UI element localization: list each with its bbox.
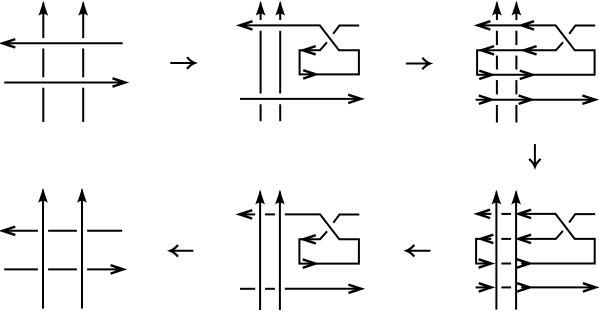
panel 1: top horizontal strand (leftward, over) (3, 42, 123, 44)
panel 4: bottom horizontal strand segment 1 (4, 268, 38, 270)
panel 1: right arrowhead of bottom horizontal strand (113, 78, 126, 86)
panel 6: left arrowhead of looped strand end (477, 210, 490, 218)
panel 1: vertical strand 1 lower segment (42, 88, 44, 122)
panel 1: vertical strand 1 upper segment (42, 3, 44, 38)
panel 3: vertical strand 2 segment 1 (515, 3, 517, 21)
panel 5: looped strand (top line, over diagonal, rectangle loop, under diagonal lower part) (285, 214, 359, 263)
panel 3: left arrowhead 2 on loop top edge (524, 46, 537, 54)
panel 6: looped strand top line segment 2 (501, 213, 511, 215)
panel 3: vertical strand 2 segment 5 (515, 105, 517, 123)
panel 6: right arrowhead 1 on loop bottom edge (479, 259, 492, 267)
panel 3: mid left arrowhead on looped strand top line (521, 21, 534, 29)
panel 6: up arrowhead on vertical strand 1 (492, 190, 502, 205)
panel 3: vertical strand 1 segment 5 (496, 105, 498, 123)
panel 1: up arrowhead on vertical strand 1 (38, 1, 48, 16)
panel 6: up arrowhead on vertical strand 2 (511, 190, 521, 205)
panel 1: up arrowhead on vertical strand 2 (78, 1, 88, 16)
panel 3: right arrowhead 2 on loop bottom edge (520, 71, 533, 79)
panel 2: left arrowhead of looped strand (240, 21, 253, 29)
panel 3: end right arrowhead of bottom horizontal strand (582, 96, 595, 104)
panel 3: up arrowhead on vertical strand 2 (512, 1, 522, 16)
panel 4: top horizontal strand segment 2 (48, 230, 77, 232)
panel 5: left arrowhead on loop top edge (303, 235, 316, 243)
panel 2: up arrowhead on vertical strand 2 (275, 1, 285, 16)
panel 3: vertical strand 2 segment 4 (515, 80, 517, 94)
panel 5: right arrowhead on loop bottom edge (303, 259, 316, 267)
panel 2: vertical strand 1 upper segment (260, 3, 262, 20)
panel 3: bottom horizontal strand (rightward, over) (476, 99, 594, 101)
panel 4: top horizontal strand segment 1 (3, 230, 38, 232)
panel 6: loop top edge middle segment (501, 238, 511, 240)
panel 5: bottom horizontal strand segment 1 (240, 288, 255, 290)
panel 1: left arrowhead of top horizontal strand (3, 39, 16, 47)
panel 3: vertical strand 2 segment 3 (515, 56, 517, 70)
panel 2: vertical strand 2 middle segment (279, 31, 281, 94)
panel 6: loop left end (bottom edge, left edge, top edge) (476, 239, 491, 264)
panel 4: up arrowhead on vertical strand 2 (77, 188, 87, 203)
panel 2: right arrowhead on loop bottom edge (303, 70, 316, 78)
panel 5: left arrowhead of looped strand (239, 210, 252, 218)
panel 6: bottom horizontal strand segment 1 (476, 286, 492, 288)
panel 6: mid left arrowhead on looped strand top line (518, 210, 531, 218)
panel 6: looped strand (top line, over diagonal, loop right part) (521, 214, 595, 264)
panel 3: looped strand (top line, over diagonal, stretched rectangle loop, under diagonal lower part) (477, 25, 594, 74)
panel 6: looped strand under-diagonal upper part and right stub (569, 214, 595, 222)
panel 5: looped strand top line segment 1 (240, 213, 255, 215)
panel 2: up arrowhead on vertical strand 1 (256, 1, 266, 16)
panel 3: up arrowhead on vertical strand 1 (492, 1, 502, 16)
panel 2: vertical strand 2 upper segment (279, 3, 281, 20)
panel 4: vertical strand 1 (solid, over) (42, 190, 44, 309)
panel 5: up arrowhead on vertical strand 1 (255, 190, 265, 205)
panel 2: vertical strand 1 middle segment (260, 31, 262, 94)
panel 6: vertical strand 1 (solid, over) (495, 192, 497, 310)
panel 6: right arrowhead 2 on loop bottom edge (517, 259, 530, 267)
panel 3: vertical strand 2 segment 2 (515, 31, 517, 45)
panel 6: bottom horizontal strand segment 2 (501, 286, 511, 288)
panel 3: vertical strand 1 segment 4 (496, 80, 498, 94)
panel 5: bottom horizontal strand segment 3 (285, 288, 359, 290)
panel 5: vertical strand 1 (solid, over) (259, 192, 261, 311)
panel 6: left arrowhead 2 on loop top edge (518, 235, 531, 243)
panel 3: vertical strand 1 segment 1 (496, 3, 498, 21)
panel 3: right arrowhead 2 on bottom horizontal strand (519, 96, 532, 104)
panel 3: right arrowhead 1 on loop bottom edge (479, 71, 492, 79)
move arrow: panel 6 to panel 5 (407, 245, 431, 257)
panel 3: vertical strand 1 segment 3 (496, 56, 498, 70)
panel 6: bottom horizontal strand segment 3 (521, 286, 594, 288)
panel 1: vertical strand 2 middle segment (82, 49, 84, 78)
panel 6: loop bottom edge middle segment (501, 263, 511, 265)
panel 6: looped strand top line segment 1 (478, 213, 491, 215)
panel 1: vertical strand 2 upper segment (82, 3, 84, 38)
panel 2: bottom horizontal strand (rightward, over) (240, 98, 359, 100)
panel 4: vertical strand 2 (solid, over) (81, 190, 83, 309)
panel 4: bottom horizontal strand segment 2 (48, 268, 77, 270)
move arrow: panel 2 to panel 3 (406, 58, 430, 70)
panel 5: looped strand under-diagonal upper part and right stub (333, 215, 359, 223)
panel 6: end right arrowhead of bottom horizontal strand (583, 283, 596, 291)
panel 2: left arrowhead on loop top edge (303, 46, 316, 54)
panel 2: looped strand (top line, over diagonal, rectangle loop, under diagonal lower part) (241, 25, 359, 74)
panel 5: up arrowhead on vertical strand 2 (275, 190, 285, 205)
panel 1: vertical strand 1 middle segment (42, 49, 44, 78)
panel 5: vertical strand 2 (solid, over) (279, 192, 281, 311)
panel 5: right arrowhead of bottom horizontal strand (348, 285, 361, 293)
panel 3: vertical strand 1 segment 2 (496, 31, 498, 45)
panel 4: up arrowhead on vertical strand 1 (38, 188, 48, 203)
panel 2: right arrowhead of bottom horizontal strand (348, 95, 361, 103)
move arrow: panel 3 down to panel 6 (529, 144, 541, 167)
panel 4: bottom horizontal strand segment 3 (87, 268, 122, 270)
move arrow: panel 1 to panel 2 (170, 57, 194, 69)
panel 1: bottom horizontal strand (rightward, over) (4, 82, 124, 84)
panel 3: left arrowhead 1 on loop top edge (481, 46, 494, 54)
panel 5: bottom horizontal strand segment 2 (265, 288, 275, 290)
panel 1: vertical strand 2 lower segment (82, 88, 84, 122)
panel 3: left arrowhead of looped strand end (478, 21, 491, 29)
panel 4: right arrowhead of bottom horizontal strand (111, 265, 124, 273)
panel 4: left arrowhead of top horizontal strand (3, 227, 16, 235)
panel 2: vertical strand 2 lower segment (279, 104, 281, 121)
panel 3: right arrowhead 1 on bottom horizontal strand (479, 96, 492, 104)
panel 6: left arrowhead 1 on loop top edge (481, 235, 494, 243)
panel 5: looped strand top line segment 2 (265, 213, 275, 215)
panel 6: vertical strand 2 (solid, over) (515, 192, 517, 310)
panel 6: right arrowhead 2 on bottom horizontal strand (517, 283, 530, 291)
panel 6: loop top edge right segment and under-diagonal lower part (521, 231, 563, 239)
panel 2: vertical strand 1 lower segment (260, 104, 262, 121)
panel 6: right arrowhead 1 on bottom horizontal strand (479, 283, 492, 291)
move arrow: panel 5 to panel 4 (170, 245, 193, 257)
panel 2: looped strand under-diagonal upper part and right stub (333, 26, 359, 34)
panel 4: top horizontal strand segment 3 (87, 230, 122, 232)
panel 3: looped strand under-diagonal upper part and right stub (569, 26, 595, 34)
